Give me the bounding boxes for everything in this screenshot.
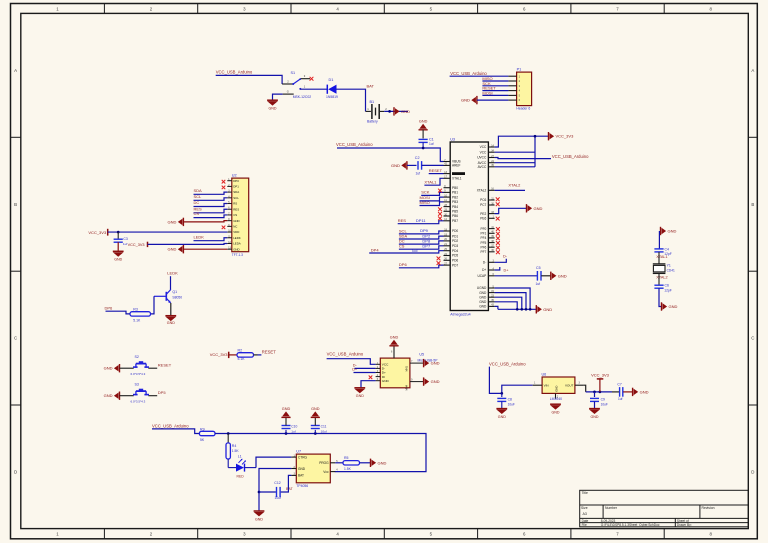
svg-text:XTAL2: XTAL2 [656, 276, 667, 280]
svg-text:GND: GND [669, 304, 678, 309]
svg-text:PF5: PF5 [480, 241, 486, 245]
net label XTAL1 (U3) [424, 179, 437, 184]
wire [489, 367, 532, 395]
wire [495, 189, 525, 191]
svg-text:PF4: PF4 [480, 236, 486, 240]
capacitor C3 1uf (U2) [114, 232, 128, 251]
net label CS (U3) [399, 244, 405, 249]
resistor R5 1.5K [343, 456, 360, 471]
wire [482, 85, 508, 87]
svg-text:D: D [751, 470, 754, 475]
net label SCL (U3) [399, 228, 408, 233]
svg-text:GND: GND [543, 307, 552, 312]
net label DP5 (S3) [158, 390, 167, 395]
svg-text:CD41: CD41 [667, 268, 675, 272]
svg-text:GND: GND [391, 163, 400, 168]
svg-text:Header 6: Header 6 [516, 106, 530, 110]
net label DC (U3) [399, 239, 405, 244]
svg-text:GND: GND [431, 361, 440, 366]
svg-text:PF7: PF7 [480, 250, 486, 254]
wire [369, 251, 443, 253]
svg-text:PD7: PD7 [452, 263, 458, 267]
no-connect X PD7 [437, 261, 441, 265]
svg-text:GND: GND [269, 106, 277, 110]
ground GND (C8) [496, 409, 507, 419]
svg-text:PB2: PB2 [452, 195, 458, 199]
wire [361, 381, 376, 388]
svg-text:GND: GND [479, 291, 487, 295]
svg-text:PB7: PB7 [452, 219, 458, 223]
svg-text:GND: GND [461, 98, 470, 103]
svg-text:Q1: Q1 [172, 290, 177, 294]
power port GND (R5) [371, 459, 387, 467]
svg-text:D+: D+ [504, 268, 510, 272]
power port VCC_3V3 (U2 VDD) [88, 229, 107, 236]
svg-text:B: B [14, 202, 17, 207]
svg-text:PD2: PD2 [452, 239, 458, 243]
wire [227, 434, 229, 443]
no-connect X PF0 [496, 227, 500, 231]
svg-text:GND: GND [401, 109, 410, 114]
no-connect X PD5 [437, 257, 441, 261]
net label RESET (S2) [158, 363, 172, 368]
svg-text:TFT-1.3: TFT-1.3 [232, 253, 243, 257]
svg-text:C5: C5 [536, 266, 541, 270]
net label RESET (P1) [482, 86, 496, 91]
wire [360, 462, 371, 464]
svg-text:VCC: VCC [480, 145, 487, 149]
power port VCC_3V3 (U6 output) [591, 373, 610, 392]
no-connect X PB6 [438, 217, 442, 221]
svg-text:VCC_USB_Arduino: VCC_USB_Arduino [216, 70, 253, 75]
svg-text:GND: GND [168, 247, 177, 252]
wire [106, 311, 131, 314]
svg-text:RS: RS [233, 202, 237, 206]
wire [108, 231, 228, 234]
svg-text:XTAL1: XTAL1 [424, 179, 437, 184]
no-connect X PC7 [496, 202, 500, 206]
svg-text:PD4: PD4 [452, 249, 458, 253]
svg-text:VIN: VIN [544, 384, 549, 388]
svg-text:GND: GND [311, 407, 320, 411]
svg-text:GND: GND [382, 379, 390, 383]
wire [300, 88, 327, 90]
svg-text:DP6: DP6 [105, 306, 114, 311]
wire [194, 238, 228, 241]
net label VCC_USB_Arduino (U5) [327, 351, 364, 356]
svg-text:GND: GND [668, 229, 677, 234]
svg-text:CS: CS [399, 244, 405, 249]
svg-text:L1: L1 [238, 455, 242, 459]
svg-text:GND: GND [554, 386, 558, 392]
svg-text:DP4: DP4 [371, 248, 380, 253]
svg-text:GND: GND [298, 467, 306, 471]
net label MISO (U3) [420, 200, 430, 205]
wire [482, 90, 508, 92]
no-connect X on S1 pin 3 [310, 77, 314, 81]
svg-text:PD3: PD3 [452, 244, 458, 248]
wire [384, 110, 408, 113]
wire [355, 367, 376, 369]
wire [399, 246, 444, 249]
net label SDA (U3) [399, 234, 408, 239]
svg-text:DP11: DP11 [416, 218, 426, 223]
wire [194, 215, 228, 218]
net label DP7 [422, 244, 431, 249]
wire [429, 173, 444, 175]
wire [229, 354, 237, 356]
power port VCC_3V3 (R2) [210, 352, 229, 358]
wire [495, 259, 507, 263]
wire [658, 231, 660, 249]
svg-text:U6: U6 [542, 373, 547, 377]
svg-text:DP7: DP7 [422, 244, 431, 249]
svg-text:PC7: PC7 [480, 203, 486, 207]
wire [151, 296, 155, 314]
net label RESET (R2) [262, 349, 276, 354]
net label VCC_USB_Arduino (UVCC) [552, 154, 589, 159]
wire [258, 469, 292, 511]
svg-text:C6: C6 [665, 283, 670, 287]
wire [194, 198, 228, 200]
svg-text:PF6: PF6 [480, 245, 486, 249]
net label MISO [482, 76, 492, 81]
net label VCC_USB_Arduino (U6) [489, 361, 526, 366]
power port GND (S2) [104, 364, 120, 372]
power port GND (C7) [633, 388, 649, 396]
svg-text:GND: GND [534, 206, 543, 211]
svg-text:UCAP: UCAP [477, 274, 486, 278]
svg-text:PB1: PB1 [452, 191, 458, 195]
svg-text:C1: C1 [429, 137, 434, 141]
svg-text:1.5K: 1.5K [232, 449, 240, 453]
svg-text:RESET: RESET [262, 349, 276, 354]
net label LEDK (Q1) [167, 271, 178, 276]
svg-text:B1: B1 [370, 100, 375, 104]
battery B1 [366, 100, 388, 124]
svg-text:C11: C11 [321, 424, 327, 428]
svg-text:12pF: 12pF [664, 288, 672, 292]
svg-text:XTAL1: XTAL1 [656, 255, 667, 259]
net label SCK [482, 81, 491, 86]
resistor R2 5.1K [237, 348, 254, 361]
svg-text:C3: C3 [123, 237, 127, 241]
net label MOSI (U3) [420, 195, 430, 200]
svg-text:C: C [751, 336, 754, 341]
svg-text:BAT: BAT [367, 84, 375, 89]
ground GND (C9) [589, 409, 600, 419]
ground GND (C3) [113, 251, 124, 261]
svg-text:R2: R2 [238, 348, 243, 352]
svg-text:PD5: PD5 [452, 254, 458, 258]
svg-text:VCC_3V3: VCC_3V3 [128, 243, 145, 247]
svg-text:VOUT: VOUT [565, 384, 574, 388]
svg-text:10uf: 10uf [321, 429, 327, 433]
svg-text:D: D [14, 470, 17, 475]
svg-text:DC: DC [194, 200, 200, 205]
svg-text:MSK-12C02: MSK-12C02 [293, 95, 312, 99]
net label D- (U3) [503, 254, 508, 258]
no-connect X PF7 [496, 250, 500, 254]
wire [254, 354, 262, 356]
svg-text:LEDA: LEDA [233, 242, 241, 246]
svg-text:PROG: PROG [319, 461, 329, 465]
svg-text:C8: C8 [508, 397, 512, 401]
wire [399, 231, 444, 234]
svg-text:Size: Size [581, 506, 588, 510]
svg-text:SCL: SCL [233, 196, 239, 200]
svg-text:LM3940: LM3940 [550, 397, 562, 401]
svg-text:SDA: SDA [233, 190, 239, 194]
net label D+ (U5) [352, 368, 358, 372]
svg-text:GND: GND [168, 219, 177, 224]
net label VCC_USB_Arduino (charger) [152, 423, 189, 428]
svg-text:GND: GND [479, 300, 487, 304]
no-connect X PF4 [496, 236, 500, 240]
svg-text:Y1: Y1 [667, 263, 671, 267]
svg-text:PF1: PF1 [480, 232, 486, 236]
svg-text:R9: R9 [200, 427, 205, 431]
capacitor C6 12pF [654, 283, 671, 292]
no-connect X PE6 [496, 217, 500, 221]
net label DP9 [420, 228, 429, 233]
svg-text:CS: CS [194, 211, 200, 216]
net label DP11 [416, 218, 426, 223]
svg-text:P1: P1 [517, 68, 522, 72]
power port GND (crystal top) [661, 227, 677, 235]
svg-text:D1: D1 [329, 78, 334, 82]
svg-text:DP5: DP5 [158, 390, 167, 395]
svg-text:Battery: Battery [367, 120, 378, 124]
svg-text:R3: R3 [133, 307, 138, 311]
svg-text:RES: RES [398, 218, 407, 223]
svg-text:DP0: DP0 [233, 179, 239, 183]
net label VCC_USB_Arduino (VBUS) [336, 142, 373, 147]
svg-text:GND: GND [282, 407, 291, 411]
svg-text:Vcc: Vcc [323, 470, 329, 474]
svg-text:GND: GND [640, 389, 649, 394]
wire [194, 192, 228, 194]
svg-text:U2: U2 [232, 174, 237, 178]
svg-text:GND: GND [356, 394, 364, 398]
wire [495, 267, 500, 270]
wire [148, 242, 228, 245]
no-connect X U2 pin2 [222, 186, 226, 190]
svg-text:MH4: MH4 [404, 384, 408, 390]
MCU U3 Atmega32u4 [444, 138, 495, 317]
svg-text:1uf: 1uf [123, 242, 127, 246]
svg-text:RESET: RESET [158, 363, 172, 368]
wire [183, 248, 227, 250]
wire [216, 75, 282, 84]
LED L1 RED [228, 455, 256, 479]
no-connect X PB0 [438, 189, 442, 193]
svg-text:1.5K: 1.5K [344, 467, 352, 471]
wire main bus loop [215, 432, 426, 471]
svg-text:PD0: PD0 [452, 229, 458, 233]
wire [337, 147, 444, 162]
wire [259, 491, 276, 493]
svg-text:GND: GND [104, 366, 113, 371]
transistor Q1 S8050 [154, 290, 182, 304]
svg-text:PF0: PF0 [480, 227, 486, 231]
wire [495, 275, 538, 277]
power port VCC_3V3 (U3) [549, 132, 575, 140]
svg-text:PC6: PC6 [480, 198, 486, 202]
svg-text:GND: GND [167, 321, 175, 325]
svg-text:BAT: BAT [298, 474, 304, 478]
svg-text:VCC_USB_Arduino: VCC_USB_Arduino [552, 154, 589, 159]
svg-text:LEDK: LEDK [194, 234, 205, 239]
no-connect X PF5 [496, 241, 500, 245]
svg-text:U5: U5 [419, 353, 424, 357]
svg-text:LEDK: LEDK [233, 236, 241, 240]
svg-text:RED: RED [237, 475, 245, 479]
svg-text:R4: R4 [232, 444, 237, 448]
svg-text:Atmega32u4: Atmega32u4 [450, 312, 470, 316]
net label DP4 [371, 248, 380, 253]
svg-text:VCC_3V3: VCC_3V3 [591, 373, 610, 378]
wire [658, 252, 660, 264]
svg-text:S8050: S8050 [172, 295, 182, 299]
capacitor C4 12pF [654, 248, 671, 257]
svg-text:MOSI: MOSI [482, 91, 492, 96]
svg-text:1uf: 1uf [536, 282, 541, 286]
pushbutton S3 [120, 383, 158, 404]
connector U5 MicroUSB-5P [376, 346, 439, 390]
svg-text:UGND: UGND [477, 286, 487, 290]
no-connect X U5 ID pin [369, 376, 373, 380]
svg-text:1N5819: 1N5819 [326, 95, 338, 99]
net label D- (U5) [353, 363, 358, 367]
no-connect X PB4 [438, 207, 442, 211]
net label LEDK (U2) [194, 234, 205, 239]
svg-text:GND: GND [104, 393, 113, 398]
net label SCK (U3) [421, 190, 430, 195]
svg-text:5.1K: 5.1K [238, 357, 246, 361]
wire [583, 385, 619, 393]
capacitor C5 1uf (UCAP) [536, 266, 551, 286]
net label DP6 (R3) [105, 306, 114, 311]
svg-text:GND: GND [591, 415, 599, 419]
svg-text:VCC_USB_Arduino: VCC_USB_Arduino [152, 423, 189, 428]
wire [152, 429, 199, 434]
no-connect X PC6 [496, 197, 500, 201]
net label DP8 [422, 238, 431, 243]
svg-text:PB0: PB0 [452, 186, 458, 190]
net label RESET (U3) [429, 168, 443, 173]
svg-text:XTAL2: XTAL2 [477, 189, 487, 193]
svg-text:D+: D+ [352, 368, 358, 372]
svg-text:Number: Number [605, 506, 618, 510]
crystal Y1 [653, 263, 675, 273]
svg-text:PB5: PB5 [452, 210, 458, 214]
wire [170, 303, 172, 316]
svg-text:A3: A3 [583, 512, 587, 516]
svg-text:S3: S3 [135, 383, 139, 387]
svg-text:GND: GND [552, 410, 560, 414]
power port GND (UCAP) [551, 272, 567, 280]
net label CS (U2) [194, 211, 200, 216]
wire [424, 178, 443, 185]
net label XTAL2 (U3) [508, 183, 521, 188]
svg-text:BAT: BAT [286, 487, 294, 491]
connector P1 Header 6 [508, 68, 531, 111]
svg-text:C2: C2 [415, 156, 420, 160]
net label lcd [412, 248, 417, 253]
svg-text:VCC_3V3: VCC_3V3 [88, 230, 107, 235]
svg-text:C4: C4 [665, 248, 670, 252]
wire [194, 209, 228, 213]
svg-text:C: C [14, 336, 17, 341]
svg-text:10uF: 10uF [508, 402, 515, 406]
svg-text:GND: GND [479, 295, 487, 299]
svg-text:1uf: 1uf [291, 429, 295, 433]
svg-text:GND: GND [233, 219, 239, 223]
svg-text:Title: Title [582, 491, 588, 495]
svg-text:1uf: 1uf [618, 397, 623, 401]
svg-text:10uF: 10uF [601, 402, 608, 406]
svg-text:GND: GND [390, 336, 399, 340]
svg-text:VCC_USB_Arduino: VCC_USB_Arduino [327, 351, 364, 356]
svg-text:D-: D- [483, 261, 486, 265]
svg-text:GND: GND [114, 257, 122, 261]
capacitor C1 1uf [419, 130, 434, 148]
net label SCL (U2) [194, 194, 203, 199]
svg-text:C10: C10 [291, 424, 297, 428]
svg-text:VDD: VDD [233, 230, 239, 234]
net label D+ (U3) [504, 268, 510, 272]
wire [399, 236, 444, 239]
svg-text:C9: C9 [601, 397, 605, 401]
svg-text:DP6: DP6 [399, 262, 408, 267]
net label DP2 [422, 233, 431, 238]
svg-text:SCK: SCK [421, 190, 430, 195]
IC U2 display header [227, 174, 248, 258]
ground GND (U5) [354, 388, 365, 398]
power port GND (C11) [311, 407, 320, 417]
net label DP6 (U3) [399, 262, 408, 267]
svg-text:A: A [14, 68, 17, 73]
capacitor C7 1uf [617, 382, 632, 401]
svg-text:CTRG: CTRG [298, 455, 308, 459]
wire [256, 457, 291, 468]
net label VCC_USB_Arduino (P1) [450, 71, 487, 76]
svg-text:UVCC: UVCC [477, 156, 487, 160]
diode D1 1N5819 [326, 78, 338, 99]
svg-text:D+: D+ [482, 268, 486, 272]
svg-text:AVCC: AVCC [478, 165, 487, 169]
no-connect X PB5 [438, 212, 442, 216]
no-connect X PF6 [496, 246, 500, 250]
svg-text:C12: C12 [274, 481, 280, 485]
wire [658, 273, 660, 284]
svg-text:GND: GND [378, 460, 387, 465]
wire [450, 75, 509, 77]
svg-text:5K: 5K [200, 438, 205, 442]
power port GND (U5 shield right-top) [424, 359, 440, 367]
svg-text:VCC: VCC [480, 150, 487, 154]
capacitor C12 10uf [274, 481, 281, 500]
net label VCC_USB_Arduino (switch) [216, 70, 253, 75]
svg-text:VCC_3V3: VCC_3V3 [556, 134, 575, 139]
wire [420, 202, 444, 206]
svg-text:S2: S2 [135, 355, 139, 359]
IC U7 TP4056 charger [291, 450, 338, 489]
capacitor C10 1uf [282, 417, 298, 433]
svg-text:U3: U3 [450, 138, 455, 142]
net label XTAL1 (crystal) [656, 255, 667, 259]
